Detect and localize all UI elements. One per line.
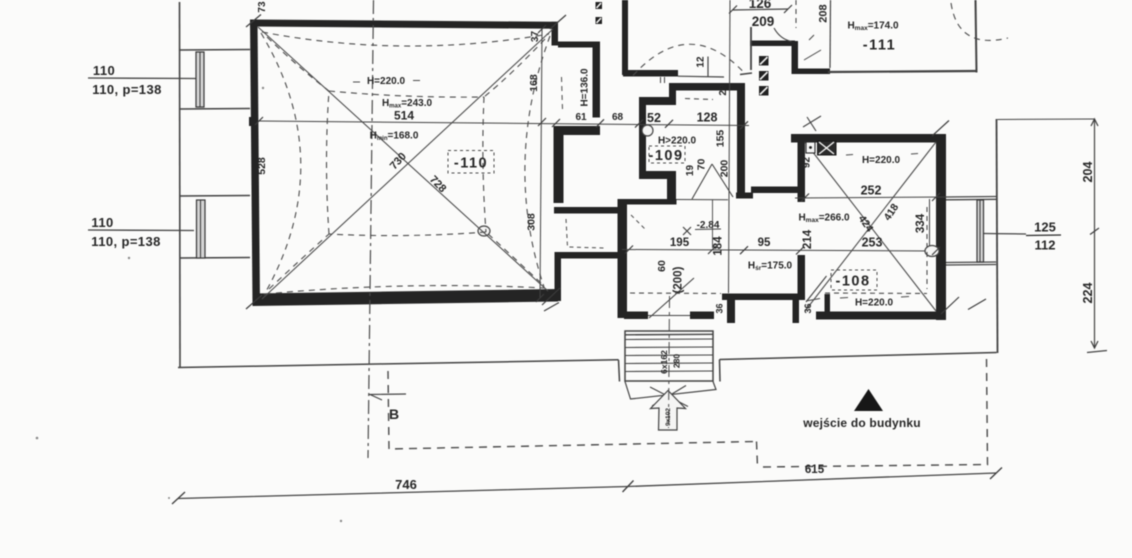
svg-text:6x162: 6x162: [659, 350, 669, 374]
svg-text:253: 253: [862, 236, 883, 250]
svg-text:308: 308: [526, 213, 538, 231]
svg-text:Hmin=168.0: Hmin=168.0: [370, 131, 419, 143]
svg-text:252: 252: [861, 184, 882, 198]
svg-text:110, p=138: 110, p=138: [92, 82, 161, 97]
svg-text:528: 528: [256, 157, 268, 175]
svg-text:-111: -111: [863, 38, 896, 54]
svg-text:12: 12: [696, 56, 707, 68]
svg-text:746: 746: [395, 477, 417, 492]
svg-text:60: 60: [656, 260, 668, 272]
svg-text:36: 36: [803, 303, 813, 313]
svg-text:280: 280: [672, 354, 682, 368]
svg-text:Hmax=174.0: Hmax=174.0: [847, 21, 899, 33]
svg-text:H>220.0: H>220.0: [658, 136, 697, 147]
svg-text:514: 514: [394, 109, 414, 123]
svg-text:110: 110: [93, 63, 115, 78]
svg-text:H=220.0: H=220.0: [855, 298, 894, 309]
svg-text:H=220.0: H=220.0: [367, 76, 406, 87]
svg-text:208: 208: [818, 4, 830, 22]
svg-text:110: 110: [91, 215, 113, 230]
svg-text:155: 155: [715, 130, 727, 148]
svg-text:128: 128: [697, 111, 718, 125]
svg-text:37: 37: [530, 31, 541, 43]
svg-text:204: 204: [1081, 162, 1095, 183]
svg-text:730: 730: [388, 150, 409, 172]
svg-text:418: 418: [882, 202, 902, 223]
svg-text:95: 95: [758, 237, 771, 249]
svg-text:36: 36: [715, 303, 725, 313]
svg-text:52: 52: [647, 111, 661, 125]
svg-text:112: 112: [1035, 238, 1056, 253]
svg-text:334: 334: [915, 213, 927, 233]
svg-text:-2.84: -2.84: [697, 220, 720, 231]
svg-text:Hśr=175.0: Hśr=175.0: [748, 261, 793, 273]
svg-text:29: 29: [718, 84, 729, 96]
svg-text:195: 195: [670, 237, 690, 249]
svg-text:-109: -109: [648, 148, 683, 164]
svg-text:-110: -110: [454, 156, 488, 172]
svg-text:73: 73: [257, 1, 268, 13]
svg-text:70: 70: [696, 159, 708, 171]
svg-text:424: 424: [856, 213, 876, 234]
svg-text:200: 200: [719, 160, 731, 178]
svg-text:110, p=138: 110, p=138: [91, 234, 160, 249]
svg-text:224: 224: [1081, 283, 1095, 304]
svg-text:209: 209: [752, 14, 775, 29]
svg-text:615: 615: [805, 464, 825, 476]
svg-text:Hmax=266.0: Hmax=266.0: [798, 213, 850, 225]
svg-text:168: 168: [528, 74, 540, 92]
svg-text:-108: -108: [835, 274, 870, 290]
svg-text:125: 125: [1034, 220, 1056, 235]
svg-text:126: 126: [749, 0, 772, 11]
svg-text:9x102: 9x102: [665, 408, 672, 426]
svg-text:B: B: [389, 406, 399, 422]
svg-text:68: 68: [612, 112, 624, 123]
svg-text:92: 92: [802, 157, 813, 169]
svg-text:184: 184: [713, 236, 725, 256]
svg-text:(200): (200): [673, 266, 685, 293]
svg-text:19: 19: [685, 165, 696, 177]
svg-text:728: 728: [427, 174, 448, 196]
svg-text:wejście do budynku: wejście do budynku: [802, 416, 921, 430]
svg-text:H=136.0: H=136.0: [580, 68, 591, 107]
svg-text:214: 214: [802, 229, 814, 249]
svg-text:61: 61: [575, 112, 587, 123]
svg-text:H=220.0: H=220.0: [862, 155, 901, 166]
